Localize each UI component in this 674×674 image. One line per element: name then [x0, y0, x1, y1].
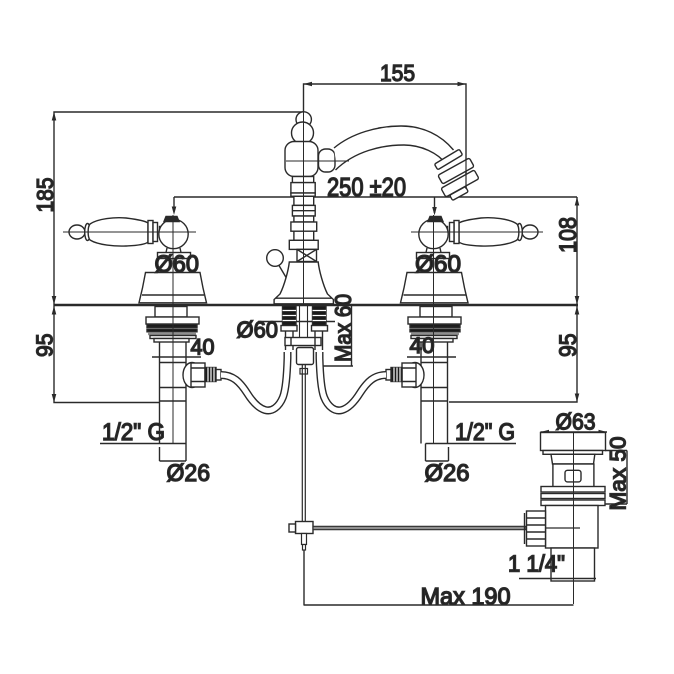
svg-text:1 1/4": 1 1/4": [508, 551, 565, 577]
dimension diameter 26 right bracket: [426, 444, 449, 462]
spout escutcheon x-box: [297, 249, 317, 261]
rod lower pin: [302, 534, 307, 551]
spout upper ball: [292, 122, 314, 144]
left shank stack: [146, 307, 199, 343]
left handle centerlines: [63, 215, 196, 443]
spout centerline: [286, 112, 349, 306]
left shank tube: [160, 342, 187, 444]
dimension 40 right line: [407, 356, 456, 358]
svg-text:1/2" G: 1/2" G: [455, 419, 515, 446]
spout bell base: [274, 262, 333, 304]
dimension 250 line: [174, 196, 577, 198]
left handle bell: [139, 273, 207, 303]
deck line: [54, 304, 578, 306]
left handle ball cap: [164, 217, 179, 222]
svg-text:Ø60: Ø60: [415, 251, 461, 278]
dimension 1/2 G right underline: [426, 443, 517, 445]
right hose: [320, 352, 387, 410]
drain overflow hole: [565, 470, 581, 482]
dimension 185 extension (top-left corner): [54, 112, 304, 305]
dimension 95 right arrows: [575, 306, 580, 402]
left handle lever: [88, 218, 148, 246]
drain knurled nut: [525, 511, 546, 546]
dimension 250 tick right handle: [434, 197, 436, 213]
dimension 250 arrows: [172, 207, 437, 216]
svg-text:108: 108: [555, 217, 582, 253]
left hose: [221, 352, 288, 410]
dimension 155 extension over sprayer: [465, 160, 467, 189]
left handle ball: [159, 219, 188, 248]
spout body: [285, 142, 318, 177]
dimension diameter 63 line: [541, 431, 608, 433]
center studs: [281, 306, 328, 350]
left handle collar: [148, 221, 158, 244]
right handle ball cap: [428, 217, 443, 222]
drain body rod line: [546, 527, 580, 529]
pop-up knob link: [279, 266, 287, 280]
dimension Max 190 extension: [303, 550, 305, 605]
sprayer head: [434, 149, 479, 200]
svg-text:Ø26: Ø26: [167, 460, 211, 487]
right handle base cylinder: [417, 253, 450, 259]
right shank stack: [408, 307, 461, 343]
right handle bell: [401, 273, 469, 303]
svg-text:Ø60: Ø60: [237, 317, 279, 343]
right handle lever: [459, 218, 519, 246]
svg-text:95: 95: [555, 334, 582, 358]
left handle base cylinder: [158, 253, 191, 259]
svg-text:40: 40: [191, 335, 215, 360]
drain centerline: [573, 433, 575, 604]
spout finial ball: [296, 112, 311, 127]
drain flange: [541, 433, 606, 455]
right handle neck: [442, 227, 448, 238]
dimension Max 60 line: [320, 306, 353, 366]
dimension 108 line: [576, 197, 578, 305]
left shank tee: [183, 363, 221, 388]
right handle collar: [450, 221, 460, 244]
dimension diameter 60 center leader: [258, 321, 335, 323]
right shank tee: [386, 363, 424, 388]
right shank tube: [421, 342, 448, 444]
dimension 95 left arrows: [52, 306, 57, 403]
right handle stem: [426, 248, 441, 253]
dimension 155 arrows: [304, 82, 467, 87]
svg-text:Max 190: Max 190: [421, 584, 511, 611]
right handle ball: [419, 219, 448, 248]
svg-text:185: 185: [32, 178, 58, 213]
dimension 95 left line: [54, 305, 159, 403]
drain tailpiece: [551, 548, 595, 581]
rod junction block: [289, 522, 313, 534]
dimension Max 50 bracket: [605, 451, 627, 505]
pop-up rod nut: [297, 348, 314, 365]
drain upper body: [553, 464, 594, 487]
svg-text:95: 95: [32, 334, 58, 358]
dimension 1 1/4 underline: [519, 578, 596, 580]
svg-text:1/2" G: 1/2" G: [102, 419, 165, 446]
dimension 108 arrows: [575, 197, 580, 305]
dimension diameter 26 left bracket: [160, 444, 187, 462]
dimension 95 right line: [449, 305, 577, 402]
dimension 155 line: [304, 84, 467, 189]
dimension 185 arrows: [52, 112, 57, 305]
dimension 40 left line: [152, 356, 201, 358]
svg-text:Ø60: Ø60: [155, 251, 200, 278]
horizontal rod: [313, 526, 526, 529]
dimension diameter 63 arrows: [541, 430, 608, 435]
dimension Max 190 line: [304, 604, 574, 606]
drain neck: [551, 454, 595, 464]
spout column rings: [289, 177, 318, 250]
spout union collar: [319, 149, 336, 172]
left handle stem: [166, 248, 181, 253]
right handle centerlines: [411, 215, 543, 443]
left handle acorn tip: [69, 224, 90, 241]
svg-text:Ø26: Ø26: [425, 460, 470, 487]
svg-text:Ø63: Ø63: [556, 409, 596, 435]
center clamp bar: [285, 338, 321, 346]
pop-up rod: [300, 365, 308, 523]
drain lower body: [546, 506, 599, 549]
dimension 1/2 G left underline: [100, 443, 186, 445]
svg-text:155: 155: [380, 60, 415, 86]
left handle neck: [160, 227, 166, 238]
drain washers: [541, 487, 605, 506]
spout arm: [334, 126, 456, 170]
dimension 250 tick left handle: [173, 197, 175, 211]
svg-text:40: 40: [410, 333, 435, 358]
right handle acorn tip: [517, 224, 538, 241]
svg-text:Max 50: Max 50: [606, 437, 631, 511]
svg-text:250 ±20: 250 ±20: [327, 172, 406, 202]
pop-up knob: [267, 250, 284, 267]
